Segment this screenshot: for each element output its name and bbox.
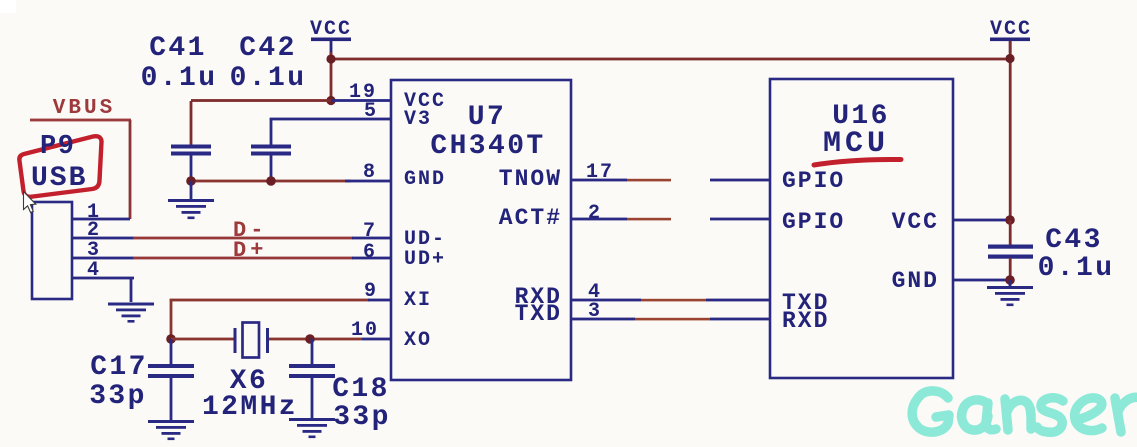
svg-text:XI: XI (404, 289, 432, 312)
pin 1 stub (72, 218, 130, 221)
svg-text:ACT#: ACT# (499, 205, 562, 231)
wire TNOW right navy segment (710, 179, 770, 182)
wire GND bus y181 (red) (191, 180, 351, 183)
wire crystal right to XO (red) (269, 338, 362, 341)
wire TNOW to GPIO (navy left) (571, 179, 627, 182)
node junction C42 bottom (271,181) (266, 176, 276, 186)
wire XI navy end (368, 299, 392, 302)
pin 4 stub (72, 277, 134, 280)
svg-text:RXD: RXD (782, 308, 829, 334)
wire RXD-TXD red middle (641, 299, 706, 302)
svg-text:6: 6 (363, 241, 377, 264)
power symbol VCC (top left) (310, 18, 352, 54)
svg-text:GND: GND (404, 168, 446, 191)
svg-text:4: 4 (87, 259, 101, 282)
node junction (310,339) (305, 334, 315, 344)
svg-text:C42: C42 (239, 33, 297, 64)
svg-text:D+: D+ (233, 238, 267, 263)
pin 2 stub (72, 237, 134, 240)
node junction (1010,58) (1005, 54, 1014, 63)
wire ACT# red segment (627, 218, 671, 221)
svg-text:GPIO: GPIO (782, 209, 845, 235)
svg-text:12MHz: 12MHz (202, 392, 298, 423)
pin 3 stub (72, 257, 134, 260)
ground under C43 (987, 280, 1033, 306)
connector P9 USB body (32, 202, 72, 299)
wire pin19 stub (331, 99, 391, 102)
svg-text:33p: 33p (333, 402, 391, 433)
svg-text:7: 7 (363, 220, 377, 243)
mouse cursor (24, 192, 36, 213)
svg-text:C41: C41 (149, 33, 207, 64)
svg-text:CH340T: CH340T (430, 131, 545, 162)
node junction (331,100) (326, 96, 335, 105)
svg-text:V3: V3 (404, 108, 432, 131)
node junction (1010,280) (1005, 275, 1015, 285)
wire TXD-RXD red middle (635, 318, 710, 321)
capacitor C42 (230, 33, 307, 182)
svg-text:UD+: UD+ (404, 248, 446, 271)
chip U16 MCU body (770, 79, 953, 378)
wire XI red horizontal (170, 299, 370, 302)
crystal X6 (234, 323, 270, 358)
capacitor C41 (141, 33, 218, 182)
svg-text:GPIO: GPIO (782, 168, 845, 194)
svg-text:GND: GND (892, 268, 939, 294)
ground under C17 (148, 420, 194, 440)
node junction (331,59) (326, 54, 335, 63)
ground under C18 (289, 418, 335, 438)
svg-text:C18: C18 (332, 374, 390, 405)
wire VCC vertical stem right (1009, 41, 1012, 221)
wire XI vertical drop (170, 299, 173, 340)
node junction C41 bottom (191,181) (186, 176, 196, 186)
power symbol VCC (top right) (990, 18, 1032, 53)
svg-text:P9: P9 (40, 132, 75, 162)
wire D+ navy end to pin6 (352, 257, 392, 260)
svg-text:XO: XO (404, 329, 432, 352)
wire XO navy end (362, 338, 392, 341)
svg-text:MCU: MCU (823, 127, 889, 161)
wire VCC top horizontal bus (330, 58, 1011, 61)
svg-text:2: 2 (588, 202, 602, 225)
wire RXD-TXD navy left (571, 299, 641, 302)
svg-text:C17: C17 (90, 352, 148, 383)
svg-text:USB: USB (31, 163, 87, 194)
wire TNOW red segment (627, 179, 671, 182)
wire VCC pin stub (U16) (953, 219, 1010, 222)
node junction (171,339) (166, 334, 176, 344)
wire D- navy end to pin7 (352, 237, 392, 240)
annotation red underline under MCU (814, 159, 901, 165)
wire VCC to pin19 (red part) (191, 99, 331, 102)
wire RXD-TXD navy right (706, 299, 770, 302)
wire ACT# right navy segment (710, 218, 770, 221)
node junction (1010,220) (1005, 215, 1015, 225)
svg-text:VCC: VCC (892, 209, 939, 235)
svg-text:5: 5 (364, 100, 378, 123)
svg-text:C43: C43 (1045, 225, 1103, 256)
svg-text:U7: U7 (468, 102, 506, 133)
svg-text:33p: 33p (89, 381, 147, 412)
net label VBUS (30, 97, 131, 219)
svg-text:TXD: TXD (515, 301, 562, 327)
svg-text:8: 8 (363, 161, 377, 184)
wire GND pin stub (U16) (953, 279, 1010, 282)
capacitor C17 (89, 339, 194, 420)
ground under C41 (168, 181, 214, 219)
wire D+ (red) (133, 257, 353, 260)
ground under USB pin4 (108, 303, 154, 323)
annotation red box around P9 USB (19, 136, 101, 197)
capacitor C43 (988, 220, 1114, 284)
video artifact patch top-left (0, 0, 16, 13)
capacitor C18 (289, 339, 391, 433)
wire XO crystal left (red) (171, 338, 234, 341)
svg-text:0.1u: 0.1u (230, 63, 307, 94)
wire C42 to pin5 V3 (270, 118, 392, 121)
watermark Ganser (912, 391, 1137, 432)
svg-text:VBUS: VBUS (53, 97, 115, 120)
wire GND bus to pin8 (navy part) (345, 180, 392, 183)
svg-text:0.1u: 0.1u (141, 63, 218, 94)
op chip U7 CH340T body (391, 80, 571, 380)
svg-text:0.1u: 0.1u (1038, 253, 1115, 284)
wire pin4 to ground (130, 277, 133, 302)
svg-text:TNOW: TNOW (499, 166, 562, 192)
wire VCC vertical stem left (330, 52, 333, 101)
wire TXD-RXD navy left (571, 318, 635, 321)
wire D- (red) (133, 237, 353, 240)
wire ACT# navy left (571, 218, 627, 221)
wire TXD-RXD navy right (710, 318, 770, 321)
